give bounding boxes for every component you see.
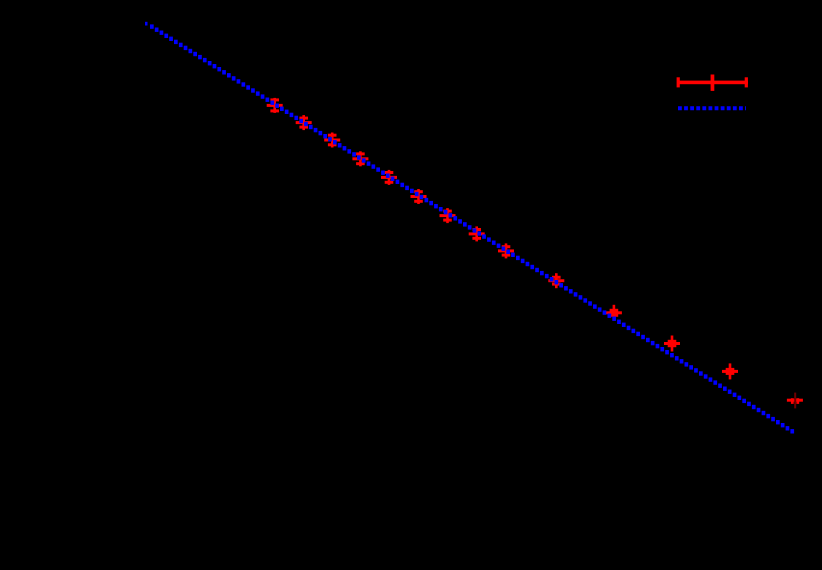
- data point 12 (red plus marker with y error bar caps): [664, 336, 680, 352]
- data point 8 (red plus marker with y error bar caps): [469, 226, 485, 241]
- data point 7 (red plus marker with y error bar caps): [440, 208, 456, 223]
- legend: blue dashed line key sample: [678, 106, 746, 110]
- data point 4 (red plus marker with y error bar caps): [352, 151, 368, 166]
- blue dashed fit line: [145, 22, 794, 434]
- data point 2 (red plus marker with y error bar caps): [296, 115, 312, 130]
- legend: red errorbar key sample: [677, 75, 748, 91]
- data point 3 (red plus marker with y error bar caps): [324, 133, 340, 148]
- data point 13 (red plus marker with y error bar caps): [722, 363, 738, 379]
- data point 6 (red plus marker with y error bar caps): [411, 189, 427, 204]
- data point 10 (red plus marker with y error bar caps): [548, 273, 564, 288]
- data point 14 (clipped at right axis: red x error bar, caps, dark thin y bar): [787, 393, 803, 409]
- data point 9 (red plus marker with y error bar caps): [498, 243, 514, 258]
- data point 11 (red plus marker with y error bar caps): [606, 305, 622, 321]
- data point 1 (red plus marker with y error bar caps): [267, 98, 283, 113]
- data point 5 (red plus marker with y error bar caps): [381, 170, 397, 185]
